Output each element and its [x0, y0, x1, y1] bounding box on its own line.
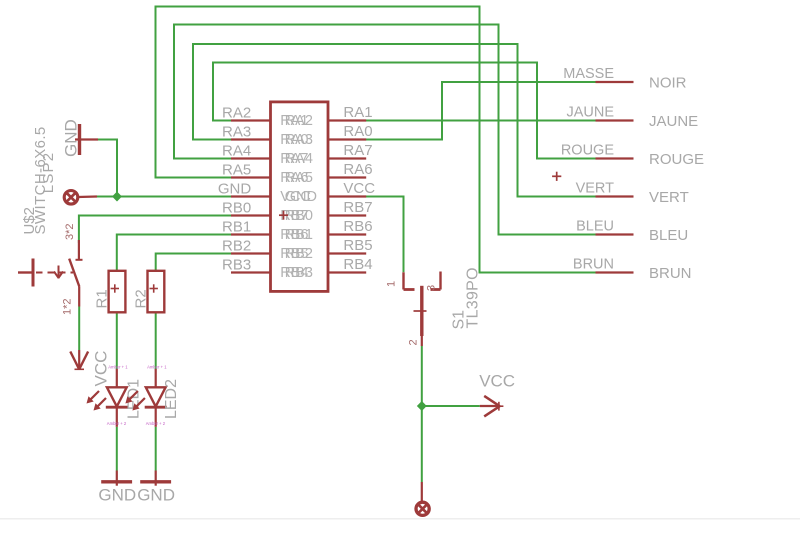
- connector pin BLEU: [596, 233, 634, 235]
- IC pin RB6 (right): [329, 233, 366, 235]
- svg-text:RA3: RA3: [222, 123, 251, 140]
- svg-text:GND: GND: [137, 486, 175, 505]
- LED LED2 light arrow 1: [129, 391, 138, 400]
- svg-text:ROUGE: ROUGE: [649, 151, 704, 168]
- svg-text:RA2: RA2: [222, 104, 251, 121]
- svg-text:RB2: RB2: [285, 246, 313, 262]
- connector pin ROUGE: [596, 157, 634, 159]
- wire R2 to LED2: [155, 312, 157, 369]
- IC pin RA1 (right): [329, 119, 366, 121]
- svg-text:R1: R1: [94, 289, 111, 308]
- pad LSP2 circle-X: [64, 191, 78, 205]
- IC pin RB3 (left): [231, 271, 270, 273]
- wire junction down to pad: [421, 406, 423, 482]
- svg-text:BRUN: BRUN: [573, 257, 614, 273]
- switch U$2 link dashes: [36, 272, 73, 274]
- wire LED1 to GND: [116, 427, 118, 471]
- IC pin RA3 (left): [231, 138, 270, 140]
- wire junction to VCC arrow right: [422, 405, 480, 407]
- svg-text:BLEU: BLEU: [649, 227, 688, 244]
- LED LED2 anode pin: [155, 369, 157, 387]
- IC origin cross: [279, 214, 288, 216]
- wire net RB0 to switch pin3: [79, 216, 231, 244]
- wire net RB1 to R1: [117, 235, 231, 271]
- svg-text:RA1: RA1: [343, 104, 372, 121]
- svg-text:Amber + 2: Amber + 2: [146, 421, 166, 426]
- switch U$2 pin 3: [78, 240, 80, 260]
- svg-text:BRUN: BRUN: [649, 265, 692, 282]
- resistor R1: [109, 271, 126, 313]
- svg-text:RB4: RB4: [343, 256, 372, 273]
- svg-text:Amber + 1: Amber + 1: [108, 365, 128, 370]
- svg-text:VERT: VERT: [649, 189, 689, 206]
- resistor R2: [148, 271, 165, 313]
- IC pin RB4 (right): [329, 271, 366, 273]
- svg-text:RB2: RB2: [222, 237, 251, 254]
- svg-text:3: 3: [426, 285, 438, 291]
- svg-text:ROUGE: ROUGE: [561, 143, 615, 159]
- IC pin GND (left): [231, 195, 270, 197]
- svg-text:RB5: RB5: [343, 237, 372, 254]
- LED LED2 cathode pin: [155, 407, 157, 427]
- wire net RB2 to R2: [156, 254, 231, 271]
- svg-text:RA2: RA2: [285, 113, 313, 129]
- wire net RA1-JAUNE: [366, 120, 596, 122]
- LED LED1 light arrow 2: [97, 398, 106, 407]
- IC pin RB0 (left): [231, 214, 270, 216]
- svg-text:RA3: RA3: [285, 132, 313, 148]
- wire net RA2-ROUGE: [213, 63, 596, 159]
- svg-text:3*2: 3*2: [64, 223, 76, 240]
- svg-text:R2: R2: [133, 289, 150, 308]
- connector pin BRUN: [596, 271, 634, 273]
- wire LED2 to GND: [155, 427, 157, 471]
- svg-text:Amber + 2: Amber + 2: [107, 421, 127, 426]
- connector pin JAUNE: [596, 119, 634, 121]
- S1 origin cross: [414, 310, 427, 312]
- IC pin RB1 (left): [231, 233, 270, 235]
- svg-text:RA4: RA4: [285, 151, 313, 167]
- svg-text:BLEU: BLEU: [576, 219, 614, 235]
- LED LED1 light arrow 1: [90, 391, 99, 400]
- svg-text:Amber + 1: Amber + 1: [147, 365, 167, 370]
- S1 pin 2: [421, 336, 423, 346]
- LED LED2 light arrow 2: [136, 398, 145, 407]
- svg-text:RA5: RA5: [222, 161, 251, 178]
- wire net VCC to S1 pin1: [366, 197, 404, 273]
- svg-text:RA0: RA0: [343, 123, 372, 140]
- svg-text:TL39PO: TL39PO: [465, 267, 482, 328]
- svg-text:SWITCH-6X6.5: SWITCH-6X6.5: [32, 126, 49, 234]
- wire net GND row: [97, 196, 231, 198]
- junction S1 net: [417, 401, 427, 411]
- connector pin VERT: [596, 195, 634, 197]
- supply VCC arrow down: [78, 350, 80, 369]
- svg-text:RB0: RB0: [285, 208, 313, 224]
- wire net RA3-VERT: [193, 44, 596, 197]
- IC pin RB2 (left): [231, 252, 270, 254]
- svg-text:RB1: RB1: [285, 227, 313, 243]
- svg-text:1*2: 1*2: [62, 298, 74, 315]
- LED LED1 cathode pin: [116, 407, 118, 427]
- IC pin RA7 (right): [329, 157, 366, 159]
- LED LED1 anode pin: [116, 369, 118, 387]
- svg-text:JAUNE: JAUNE: [566, 105, 614, 121]
- ground symbol GND (left of pair): [116, 471, 118, 486]
- switch U$2 actuator T: [18, 271, 33, 273]
- IC pin RA5 (left): [231, 176, 270, 178]
- svg-text:RB3: RB3: [285, 265, 313, 281]
- S1 pin 1 hook: [402, 272, 404, 289]
- svg-text:LED2: LED2: [163, 379, 180, 419]
- svg-text:NOIR: NOIR: [649, 75, 687, 92]
- svg-text:VERT: VERT: [576, 181, 615, 197]
- wire S1 pin2 net: [421, 346, 423, 406]
- LED LED1 triangle: [107, 387, 127, 406]
- supply VCC arrow right: [480, 405, 498, 407]
- svg-text:RB7: RB7: [343, 199, 372, 216]
- LED LED1 cathode bar: [106, 406, 128, 409]
- svg-text:MASSE: MASSE: [563, 66, 614, 82]
- op IC box U1: [271, 102, 329, 292]
- svg-text:RB1: RB1: [222, 218, 251, 235]
- wire switch pin1 to VCC arrow: [78, 307, 80, 351]
- LED LED2 cathode bar: [145, 406, 167, 409]
- svg-text:RB3: RB3: [222, 256, 251, 273]
- svg-text:2: 2: [408, 339, 420, 345]
- S1 pin 3 hook: [439, 272, 441, 290]
- IC pin RA6 (right): [329, 176, 366, 178]
- ground symbol GND (right of pair): [155, 471, 157, 486]
- wire GND symbol to junction: [98, 140, 117, 197]
- wire net RA0-MASSE: [366, 82, 596, 140]
- switch U$2 pin 1: [78, 287, 80, 307]
- IC pin RA0 (right): [329, 138, 366, 140]
- switch U$2 press arrow: [58, 266, 60, 278]
- svg-text:GND: GND: [218, 180, 252, 197]
- svg-text:RA4: RA4: [222, 142, 251, 159]
- svg-text:GND: GND: [98, 486, 136, 505]
- wire net RA4-BLEU: [174, 25, 596, 235]
- IC pin RB7 (right): [329, 214, 366, 216]
- IC pin RA4 (left): [231, 157, 270, 159]
- svg-text:1: 1: [386, 281, 398, 287]
- svg-text:RA7: RA7: [343, 142, 372, 159]
- S1 actuator bar: [420, 286, 423, 336]
- svg-text:JAUNE: JAUNE: [649, 113, 698, 130]
- sheet border line: [0, 518, 800, 519]
- IC pin VCC (right): [329, 195, 366, 197]
- wire net RA5-BRUN: [156, 7, 596, 273]
- svg-text:GND: GND: [62, 119, 81, 157]
- switch U$2 lever: [69, 259, 79, 287]
- LED LED2 triangle: [146, 387, 166, 406]
- junction GND net: [112, 192, 122, 202]
- connector pin NOIR: [596, 81, 634, 83]
- IC pin RB5 (right): [329, 252, 366, 254]
- IC pin RA2 (left): [231, 119, 270, 121]
- svg-text:RA5: RA5: [285, 170, 313, 186]
- connector origin cross: [552, 175, 561, 177]
- pad bottom circle-X: [421, 482, 423, 503]
- svg-text:GND: GND: [285, 189, 317, 205]
- ground symbol top (rotated): [78, 124, 81, 155]
- svg-text:RB0: RB0: [222, 199, 251, 216]
- svg-text:RA6: RA6: [343, 161, 372, 178]
- svg-text:RB6: RB6: [343, 218, 372, 235]
- wire R1 to LED1: [116, 312, 118, 369]
- svg-text:VCC: VCC: [479, 372, 515, 391]
- svg-text:VCC: VCC: [343, 180, 375, 197]
